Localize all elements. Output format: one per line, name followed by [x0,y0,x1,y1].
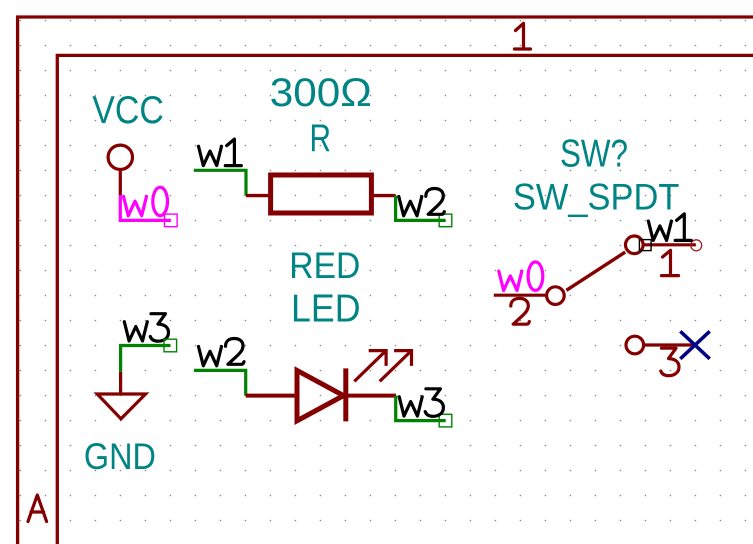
switch pin number 3 [661,348,679,376]
switch pin 1 wire [644,243,696,246]
switch pin 1 end circle [691,240,702,251]
label w1 [199,139,242,166]
resistor R body [271,175,372,213]
switch pin number 2 [511,298,530,324]
label w1 anchor square [639,240,651,251]
LED D1 cathode bar [343,368,348,421]
svg-text:GND: GND [84,435,156,477]
switch pin 1 contact circle [626,236,644,254]
wire w1 [194,170,246,195]
wire w3 (from LED) [396,396,446,421]
label w1 (switch) [648,214,691,241]
wire w2 open-end square [439,214,452,227]
svg-text:VCC: VCC [92,89,164,132]
switch pin 2 wire [494,294,545,297]
switch pin number 1 [662,250,679,275]
LED D1 triangle [297,370,344,420]
resistor R left pin [246,194,270,197]
wire w0 open-end square [165,214,178,227]
wire w3 open-end square [439,414,452,427]
LED D1 light arrow 1 [354,351,386,382]
no-connect flag X [680,331,709,359]
label w0 [124,187,168,216]
label w3 (GND side) [124,314,168,342]
LED D1 right pin [346,394,396,398]
label w0 (switch) [499,262,543,291]
svg-text:SW_SPDT: SW_SPDT [513,177,680,218]
label w2 (LED side) [199,339,245,366]
wire w2 (from resistor) [396,196,446,221]
wire w3 open-end square (GND side) [164,339,177,352]
power symbol GND triangle [97,394,145,419]
svg-text:300Ω: 300Ω [270,71,372,115]
label w2 [399,189,445,216]
LED D1 light arrow 2 [380,351,412,382]
wire w0 (highlighted) [120,195,171,220]
wire w2 to LED [194,370,246,395]
label w3 (LED side) [399,389,443,417]
power symbol VCC [92,89,164,195]
switch pin 2 contact circle [547,287,565,305]
frame row label A [28,495,47,522]
svg-text:SW?: SW? [560,133,628,176]
power symbol GND stem [119,372,122,394]
switch pin 3 contact circle [626,336,644,354]
switch pin 3 wire [644,343,697,346]
wire w3 to GND [121,346,171,372]
switch lever [566,252,625,290]
LED D1 left pin [246,394,297,398]
resistor R right pin [372,194,396,197]
frame column label 1 [515,23,531,49]
svg-text:R: R [310,117,332,160]
svg-text:RED: RED [289,245,360,286]
svg-text:LED: LED [291,288,361,331]
